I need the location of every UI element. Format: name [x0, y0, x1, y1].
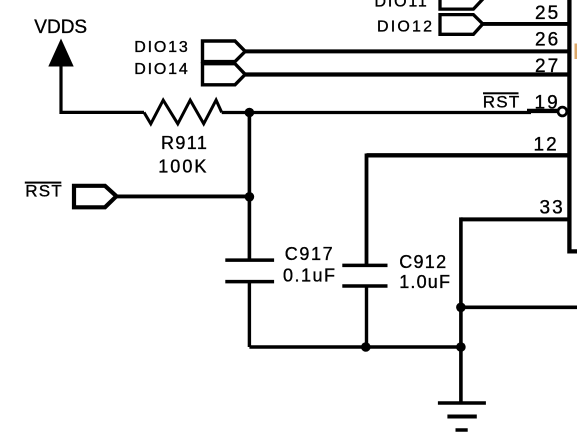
svg-text:DIO12: DIO12: [377, 19, 434, 36]
svg-text:DIO13: DIO13: [134, 39, 189, 56]
svg-text:DIO14: DIO14: [134, 61, 189, 78]
svg-text:RST: RST: [483, 93, 521, 112]
svg-text:26: 26: [535, 29, 560, 50]
svg-text:19: 19: [535, 93, 560, 114]
svg-text:25: 25: [535, 3, 560, 24]
svg-text:R911: R911: [161, 133, 208, 153]
svg-text:100K: 100K: [158, 156, 208, 176]
svg-text:0.1uF: 0.1uF: [283, 266, 337, 286]
svg-text:RST: RST: [25, 182, 63, 201]
svg-text:12: 12: [534, 135, 559, 156]
svg-text:33: 33: [540, 198, 565, 219]
svg-text:1.0uF: 1.0uF: [399, 272, 451, 292]
svg-text:VDDS: VDDS: [34, 17, 87, 38]
svg-text:C917: C917: [285, 244, 334, 264]
svg-text:DIO11: DIO11: [375, 0, 429, 11]
svg-text:C912: C912: [399, 252, 447, 272]
svg-text:27: 27: [535, 56, 560, 77]
